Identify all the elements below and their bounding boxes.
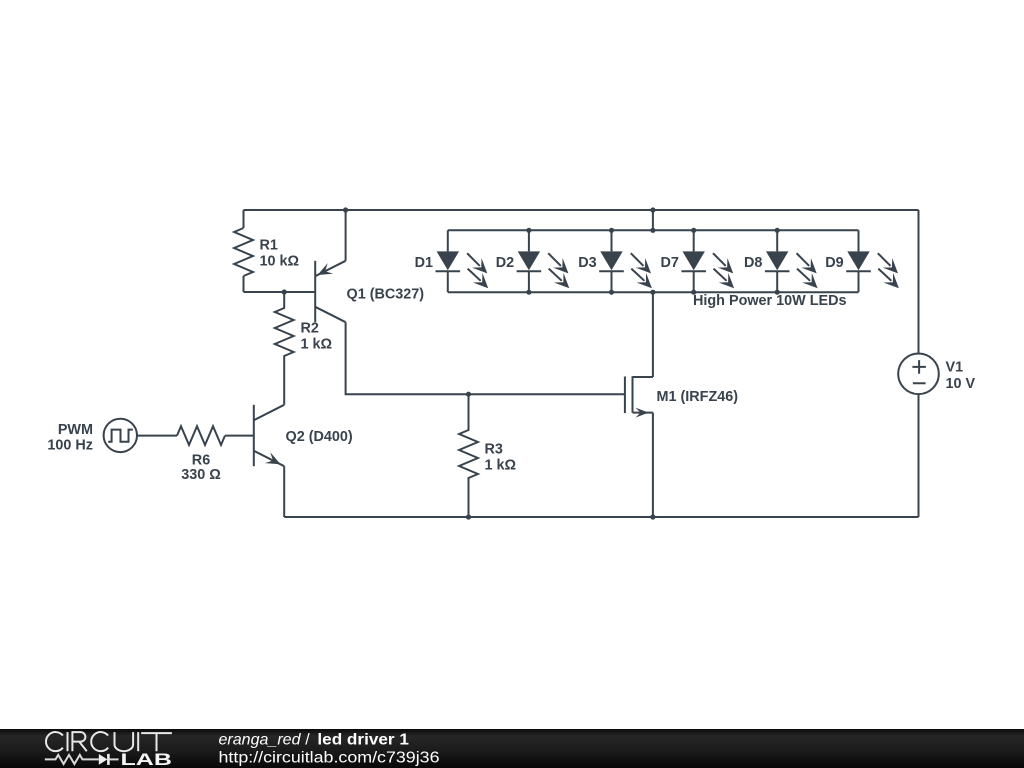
svg-text:100 Hz: 100 Hz xyxy=(47,438,93,454)
wire R6 to Q2 base xyxy=(225,435,254,437)
resistor R1 xyxy=(234,228,253,276)
wire R1 bottom lead xyxy=(243,276,245,292)
logo CIRCUIT wordmark xyxy=(46,732,172,751)
svg-text:D1: D1 xyxy=(415,255,433,271)
wire LED feed drop xyxy=(652,210,654,230)
svg-text:R1: R1 xyxy=(260,238,278,254)
wire Q2 emitter to ground rail xyxy=(283,466,285,517)
LED D7 xyxy=(681,230,734,292)
svg-text:led driver 1: led driver 1 xyxy=(317,731,409,748)
svg-text:D3: D3 xyxy=(578,255,596,271)
source V1 10V xyxy=(898,354,939,395)
wire Q1 base wire xyxy=(244,291,316,293)
transistor Q1 (BC327) PNP xyxy=(315,261,345,322)
logo resistor squiggle xyxy=(45,755,99,764)
node junction anode rail D3 xyxy=(609,228,614,233)
logo diode xyxy=(99,754,119,765)
node junction anode rail D2 xyxy=(526,228,531,233)
svg-text:10 kΩ: 10 kΩ xyxy=(260,254,300,270)
svg-text:/: / xyxy=(305,731,310,748)
resistor R2 xyxy=(275,292,294,405)
svg-text:D7: D7 xyxy=(660,255,678,271)
svg-text:R3: R3 xyxy=(485,442,503,458)
wire M1 drain to LED bottom rail xyxy=(652,292,654,377)
svg-text:10 V: 10 V xyxy=(946,376,976,392)
wire PWM to R6 xyxy=(137,435,177,437)
LED D8 xyxy=(765,230,818,292)
transistor M1 (IRFZ46) NMOS xyxy=(625,376,653,417)
svg-text:D9: D9 xyxy=(825,255,843,271)
svg-text:D2: D2 xyxy=(496,255,514,271)
svg-text:Q1 (BC327): Q1 (BC327) xyxy=(347,287,425,303)
svg-text:High Power 10W LEDs: High Power 10W LEDs xyxy=(693,293,847,309)
resistor R3 xyxy=(459,394,478,517)
svg-text:D8: D8 xyxy=(744,255,762,271)
wire top supply rail xyxy=(244,209,919,211)
wire right rail bottom xyxy=(918,394,920,517)
svg-text:LAB: LAB xyxy=(121,751,173,768)
resistor R6 xyxy=(177,426,225,445)
node junction M1 source / ground rail xyxy=(650,514,655,519)
transistor Q2 (D400) NPN xyxy=(254,405,284,466)
svg-text:330 Ω: 330 Ω xyxy=(181,467,221,483)
footer bar background xyxy=(0,729,1024,768)
wire LED anode rail xyxy=(448,229,859,231)
node junction R3 top / gate net xyxy=(466,392,471,397)
node junction cathode rail D3 xyxy=(609,290,614,295)
LED D2 xyxy=(517,230,570,292)
svg-text:PWM: PWM xyxy=(58,422,93,438)
svg-text:http://circuitlab.com/c739j36: http://circuitlab.com/c739j36 xyxy=(219,750,440,767)
node junction R2/Q1 base xyxy=(282,289,287,294)
wire left rail to R1 xyxy=(243,210,245,228)
node junction anode rail feed xyxy=(650,228,655,233)
LED D3 xyxy=(599,230,652,292)
node junction cathode rail drain xyxy=(650,290,655,295)
LED D9 xyxy=(846,230,899,292)
svg-text:eranga_red: eranga_red xyxy=(219,731,302,748)
node junction cathode rail D2 xyxy=(526,290,531,295)
svg-text:1 kΩ: 1 kΩ xyxy=(485,458,517,474)
svg-text:V1: V1 xyxy=(946,360,964,376)
source PWM function generator xyxy=(104,419,137,452)
node junction cathode rail D7 xyxy=(691,290,696,295)
node junction R3 bottom / ground rail xyxy=(466,514,471,519)
svg-text:M1 (IRFZ46): M1 (IRFZ46) xyxy=(657,389,739,405)
svg-text:Q2 (D400): Q2 (D400) xyxy=(286,429,353,445)
node junction LED feed / top rail xyxy=(650,207,655,212)
wire Q1 emitter to top rail xyxy=(345,210,347,261)
node junction anode rail D7 xyxy=(691,228,696,233)
svg-text:1 kΩ: 1 kΩ xyxy=(301,337,333,353)
wire M1 source to ground rail xyxy=(652,413,654,517)
node junction cathode rail D8 xyxy=(775,290,780,295)
node junction Q1 emitter / top rail xyxy=(343,207,348,212)
wire LED cathode rail xyxy=(448,291,859,293)
svg-text:R2: R2 xyxy=(301,321,319,337)
wire bottom ground rail xyxy=(284,516,918,518)
wire right rail top xyxy=(918,210,920,354)
wire Q1 collector down to gate net xyxy=(346,322,625,394)
LED D1 xyxy=(436,230,489,292)
node junction anode rail D8 xyxy=(775,228,780,233)
